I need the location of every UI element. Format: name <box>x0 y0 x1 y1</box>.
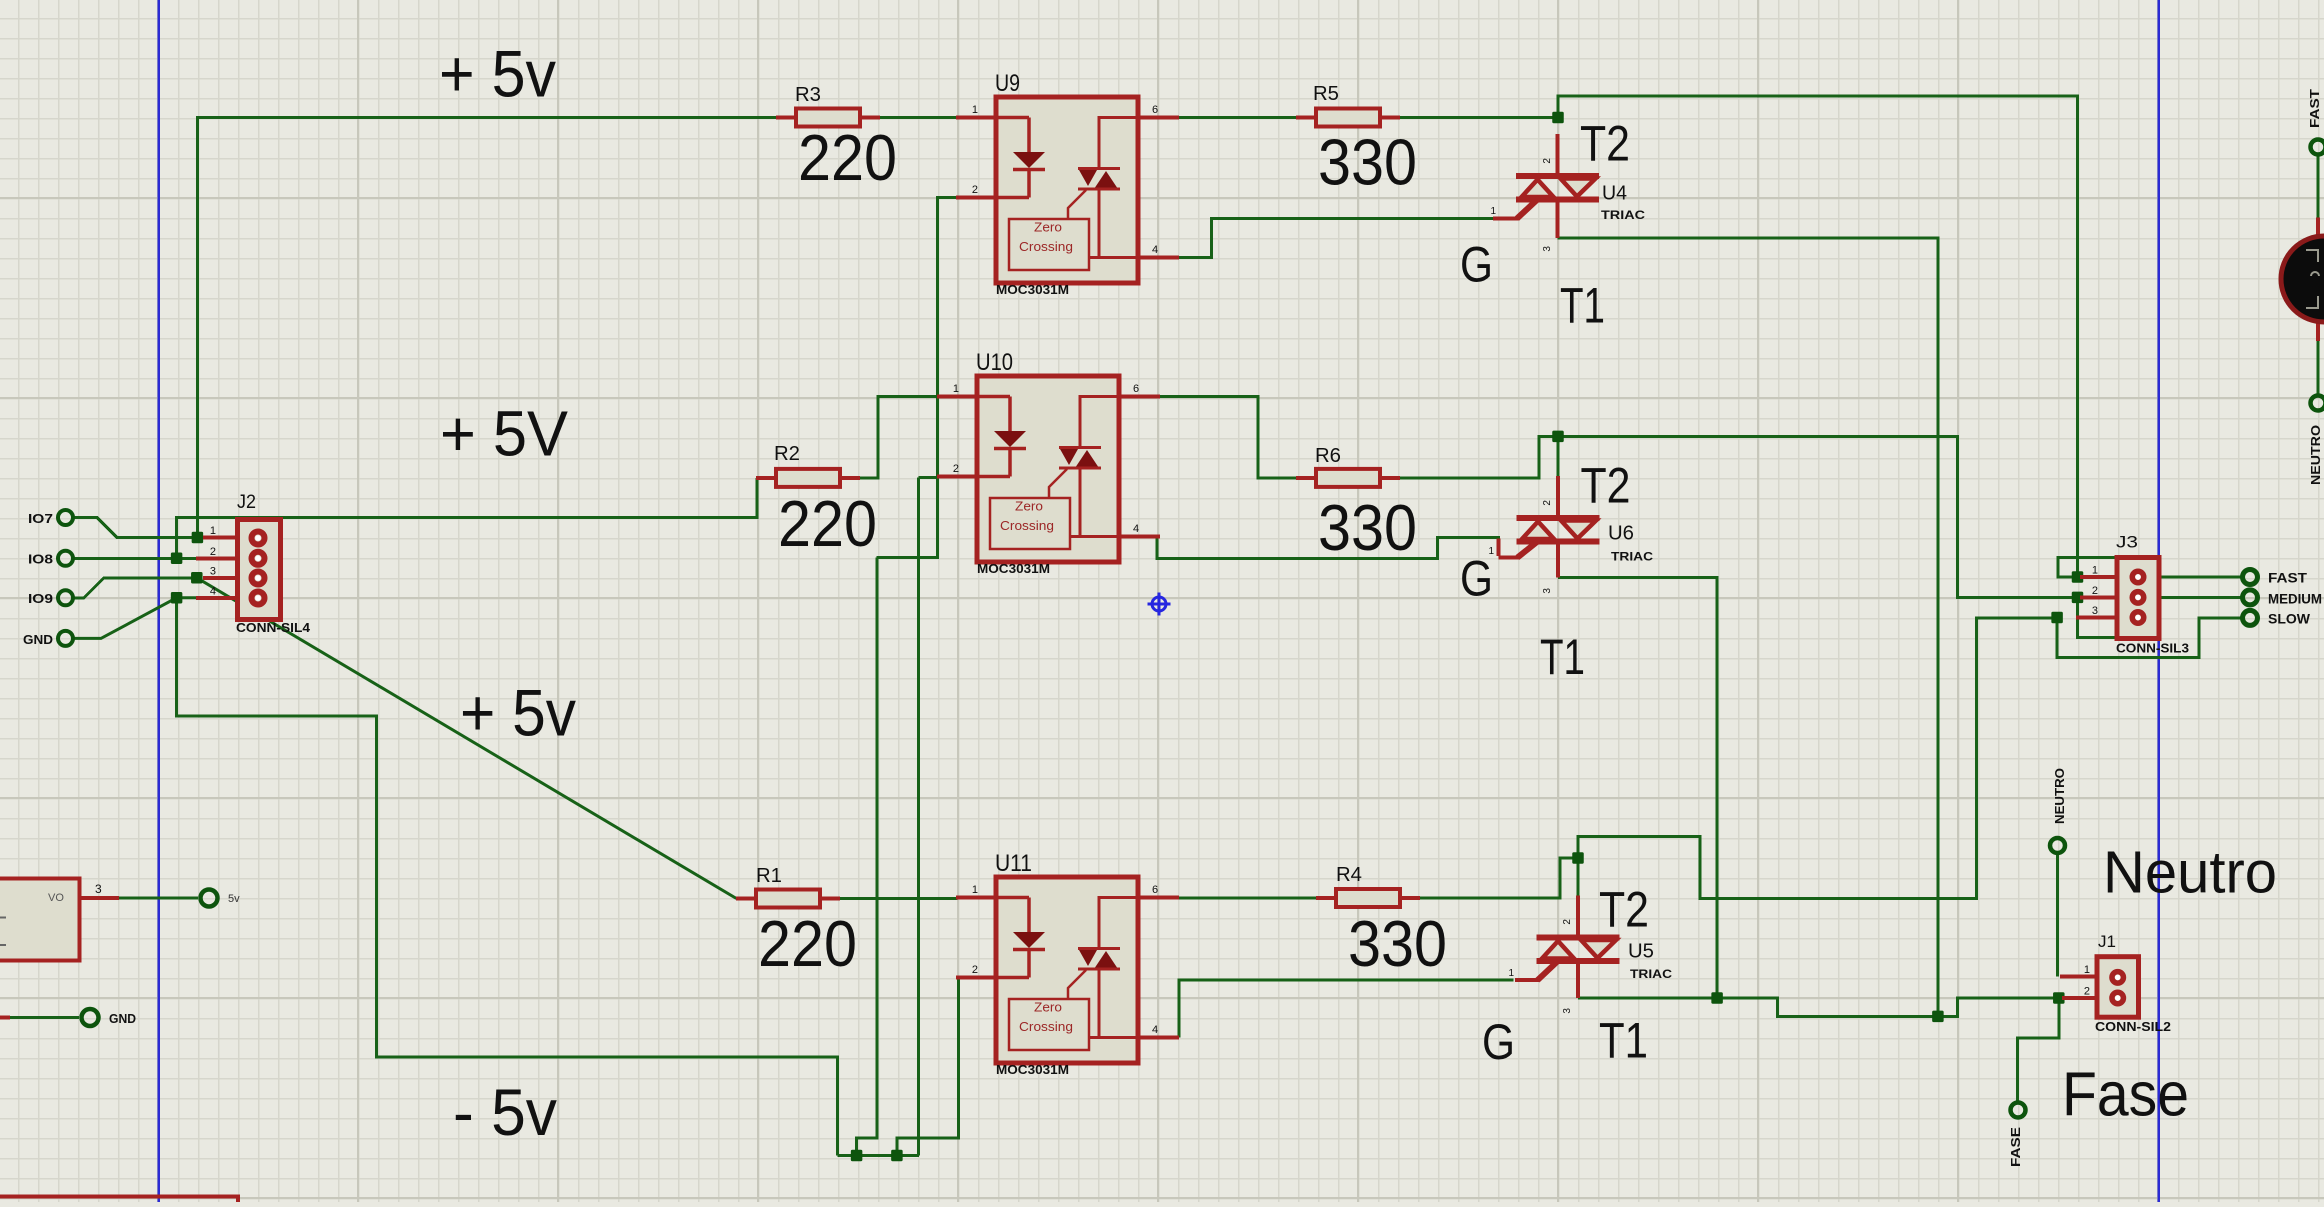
wire J2 pin3 diagonal to R1 <box>197 578 737 899</box>
svg-text:J3: J3 <box>2116 533 2138 552</box>
wire U11 pin 6 to R4 <box>1179 897 1316 900</box>
resistor R4 <box>1316 864 1447 980</box>
wire J3 pin1 loop <box>2058 557 2117 577</box>
svg-text:4: 4 <box>1152 1024 1158 1036</box>
svg-text:1: 1 <box>953 383 959 395</box>
svg-text:2: 2 <box>1562 919 1573 925</box>
svg-text:1: 1 <box>1488 546 1494 557</box>
svg-text:G: G <box>1482 1014 1515 1070</box>
triac U4 T2 red lead <box>1556 134 1560 176</box>
junction J3 pin2 <box>2072 592 2084 604</box>
wire U10 pin2 jog <box>918 476 936 479</box>
junction J2 pin4 <box>171 592 183 604</box>
terminal IO7 <box>58 510 73 525</box>
regulator V0 box <box>0 879 119 961</box>
terminal NEUTRO (J1) <box>2050 838 2065 853</box>
svg-text:- 5v: - 5v <box>453 1075 557 1149</box>
svg-text:U6: U6 <box>1608 523 1634 545</box>
svg-text:U9: U9 <box>995 70 1020 97</box>
wire U10 pin 6 down to R6 <box>1159 397 1296 478</box>
junction U5/U6 T1 <box>1711 992 1723 1004</box>
motor/lamp at right edge <box>2281 218 2324 342</box>
svg-text:Zero: Zero <box>1034 1001 1062 1015</box>
wire R5 to T2 junction of U4 <box>1400 116 1558 119</box>
svg-text:2: 2 <box>210 546 216 558</box>
terminal FAST <box>2243 570 2258 585</box>
svg-text:GND: GND <box>109 1011 136 1026</box>
origin marker (blue crosshair) <box>1148 593 1171 616</box>
svg-text:T2: T2 <box>1580 116 1630 172</box>
terminal FAST (motor top) <box>2311 140 2324 155</box>
wire FAST terminal to motor <box>2317 155 2320 218</box>
wire U5 T1 to J1 pin 2 <box>1578 998 2059 1016</box>
svg-text:R4: R4 <box>1336 864 1362 886</box>
junction J3 pin3 <box>2051 612 2063 624</box>
wire cathode riser left to bus <box>857 558 877 1156</box>
terminal 5v (V0 output) <box>201 890 218 907</box>
sheet border right <box>2157 0 2160 1202</box>
wire U5 T2 junction bypass to J3 pin 3 (SLOW) <box>1578 618 2057 899</box>
svg-text:330: 330 <box>1318 126 1417 199</box>
svg-text:U11: U11 <box>995 850 1032 877</box>
resistor R2 <box>756 443 877 560</box>
svg-text:CONN-SIL3: CONN-SIL3 <box>2116 642 2189 656</box>
svg-text:330: 330 <box>1348 907 1447 980</box>
svg-text:3: 3 <box>1542 588 1553 594</box>
wire U11 pin 4 to U5 gate <box>1179 980 1514 1037</box>
svg-text:T1: T1 <box>1540 629 1585 685</box>
svg-text:2: 2 <box>953 463 959 475</box>
wire R3 to U9 pin 1 <box>860 116 956 119</box>
wire R1 to U11 pin 1 <box>840 897 957 900</box>
svg-text:330: 330 <box>1318 491 1417 564</box>
svg-text:1: 1 <box>2092 565 2098 577</box>
wire to GND terminal <box>10 1016 79 1019</box>
svg-text:2: 2 <box>972 184 978 196</box>
connector J1 CONN-SIL2 <box>2060 957 2139 1018</box>
svg-text:U4: U4 <box>1602 183 1627 205</box>
svg-text:4: 4 <box>210 585 216 597</box>
junction J3 pin1 <box>2072 571 2084 583</box>
junction U5 T2 <box>1572 852 1584 864</box>
terminal GND (J2 side) <box>58 631 73 646</box>
svg-text:1: 1 <box>972 884 978 896</box>
svg-text:220: 220 <box>798 121 897 194</box>
triac U5 <box>1515 938 1620 999</box>
svg-text:Zero: Zero <box>1015 500 1043 514</box>
wire J1 pin 2 to FASE terminal <box>2018 998 2059 1102</box>
svg-text:+ 5V: + 5V <box>440 398 568 470</box>
svg-text:3: 3 <box>1542 246 1553 252</box>
svg-text:FAST: FAST <box>2307 89 2322 128</box>
svg-text:220: 220 <box>758 907 857 980</box>
svg-text:MOC3031M: MOC3031M <box>996 1063 1069 1077</box>
svg-text:3: 3 <box>1562 1008 1573 1014</box>
svg-text:6: 6 <box>1133 383 1139 395</box>
sheet border left <box>157 0 160 1202</box>
wire J3 to FAST terminal <box>2160 576 2241 579</box>
svg-text:2: 2 <box>1542 500 1553 506</box>
svg-text:R6: R6 <box>1315 445 1341 467</box>
wire -5v net: J2 pin4 down to bottom bus <box>177 598 838 1156</box>
svg-text:Crossing: Crossing <box>1019 240 1073 254</box>
wire U5 T2 junction down <box>1577 857 1580 896</box>
svg-text:2: 2 <box>972 964 978 976</box>
svg-text:Zero: Zero <box>1034 221 1062 235</box>
triac U6 <box>1499 518 1600 577</box>
svg-text:3: 3 <box>95 882 102 896</box>
connector J2 CONN-SIL4 <box>196 520 281 620</box>
svg-text:6: 6 <box>1152 884 1158 896</box>
svg-text:R5: R5 <box>1313 83 1339 105</box>
svg-text:+ 5v: + 5v <box>460 676 576 750</box>
svg-text:2: 2 <box>2084 986 2090 998</box>
wire U9 pin 2 down to U10 pin 2 <box>937 198 956 558</box>
svg-text:5v: 5v <box>228 893 240 905</box>
svg-text:2: 2 <box>2092 585 2098 597</box>
wire bottom bus <box>838 1154 920 1157</box>
svg-text:1: 1 <box>2084 964 2090 976</box>
wire R2 to U10 pin 1 <box>860 397 957 478</box>
svg-text:GND: GND <box>23 632 53 647</box>
svg-text:CONN-SIL2: CONN-SIL2 <box>2095 1020 2171 1034</box>
resistor R5 <box>1296 83 1417 199</box>
svg-text:G: G <box>1460 237 1493 293</box>
wire cathode bus riser right <box>917 478 920 1156</box>
wire U10 pin 4 to U6 gate <box>1157 537 1499 559</box>
terminal FASE <box>2011 1103 2026 1118</box>
svg-text:FAST: FAST <box>2268 571 2308 586</box>
optocoupler U10 MOC3031M <box>937 349 1160 576</box>
resistor R3 <box>776 84 897 194</box>
wire IO8 terminal to J2 pin 2 junction <box>74 557 196 560</box>
triac U6 gate red jog <box>1497 539 1501 557</box>
wire R6 up to U6 T2 junction <box>1400 436 1558 478</box>
svg-text:Neutro: Neutro <box>2103 840 2277 906</box>
svg-text:CONN-SIL4: CONN-SIL4 <box>236 621 310 635</box>
wire U6 T2 junction down <box>1557 435 1560 476</box>
svg-text:IO9: IO9 <box>28 591 53 606</box>
resistor R6 <box>1296 445 1417 564</box>
connector J3 CONN-SIL3 <box>2076 558 2159 639</box>
svg-text:SLOW: SLOW <box>2268 612 2310 627</box>
svg-text:VO: VO <box>48 892 64 904</box>
svg-text:Crossing: Crossing <box>1019 1020 1073 1034</box>
terminal MEDIUM <box>2243 590 2258 605</box>
svg-text:MEDIUM: MEDIUM <box>2268 592 2322 607</box>
wire +5v net: J2 pin1 up to top rail <box>197 118 776 540</box>
svg-text:Fase: Fase <box>2062 1061 2189 1130</box>
svg-text:MOC3031M: MOC3031M <box>977 562 1050 576</box>
svg-text:6: 6 <box>1152 104 1158 116</box>
resistor R1 <box>736 865 857 980</box>
svg-text:T1: T1 <box>1560 278 1605 334</box>
svg-text:3: 3 <box>2092 605 2098 617</box>
svg-text:1: 1 <box>972 104 978 116</box>
junction J2 pin2 <box>171 553 183 565</box>
triac U5 T2 red lead <box>1576 896 1580 938</box>
svg-text:T2: T2 <box>1581 458 1631 514</box>
junction bus right <box>891 1150 903 1162</box>
wire J3 pin2 loop <box>2078 597 2118 637</box>
red pin stub at GND wire left edge <box>0 1016 10 1020</box>
wire V0 output to 5v terminal <box>119 897 198 900</box>
terminal IO9 <box>58 590 73 605</box>
terminal SLOW <box>2243 610 2258 625</box>
wire GND terminal diagonal to J2 pin 4 junction <box>74 598 196 639</box>
wire IO9 terminal to J2 pin 3 junction <box>74 578 197 598</box>
svg-text:1: 1 <box>1490 206 1496 217</box>
wire U6 T2 junction to J3 pin 2 <box>1558 436 2076 597</box>
wire U6 T1 down to J1 node <box>1558 577 1717 998</box>
svg-text:IO7: IO7 <box>28 511 53 526</box>
svg-text:NEUTRO: NEUTRO <box>2052 768 2067 824</box>
wire J3 pin3 to SLOW terminal <box>2057 618 2241 658</box>
svg-text:1: 1 <box>210 525 216 537</box>
terminal NEUTRO (motor bottom) <box>2311 396 2324 411</box>
wire cathode link horizontal <box>877 556 939 559</box>
optocoupler U11 MOC3031M <box>956 850 1179 1077</box>
svg-text:3: 3 <box>210 565 216 577</box>
junction U6 T2 <box>1552 431 1564 443</box>
svg-text:R3: R3 <box>795 84 821 106</box>
svg-text:R1: R1 <box>756 865 782 887</box>
svg-text:FASE: FASE <box>2008 1127 2023 1167</box>
junction J1 pin2 <box>2053 992 2065 1004</box>
svg-text:4: 4 <box>1152 244 1158 256</box>
svg-text:220: 220 <box>778 487 877 560</box>
svg-text:T1: T1 <box>1599 1013 1648 1069</box>
svg-text:IO8: IO8 <box>28 552 53 567</box>
terminal IO8 <box>58 551 73 566</box>
svg-text:U10: U10 <box>976 349 1013 376</box>
wire U9 pin 6 to R5 <box>1179 116 1296 119</box>
wire U4 T2 junction up to top-right rail, down to J3 pin 1 <box>1558 96 2078 577</box>
junction U4 T2 <box>1552 112 1564 124</box>
wire R4 to U5 T2 junction <box>1420 858 1578 898</box>
svg-text:TRIAC: TRIAC <box>1601 208 1645 222</box>
svg-text:J2: J2 <box>237 492 256 513</box>
svg-text:TRIAC: TRIAC <box>1630 967 1672 981</box>
wire motor to NEUTRO terminal <box>2317 341 2320 395</box>
svg-text:R2: R2 <box>774 443 800 465</box>
svg-text:U5: U5 <box>1628 941 1654 963</box>
wire U9 pin 4 to U4 gate <box>1179 219 1493 258</box>
svg-text:Crossing: Crossing <box>1000 519 1054 533</box>
svg-text:J1: J1 <box>2098 932 2116 951</box>
triac U4 <box>1493 176 1599 238</box>
wire U11 pin2 to bottom bus <box>897 980 958 1156</box>
svg-text:T2: T2 <box>1599 882 1649 938</box>
optocoupler U9 MOC3031M <box>956 70 1179 297</box>
triac U6 T2 red lead <box>1556 476 1560 518</box>
svg-text:MOC3031M: MOC3031M <box>996 283 1069 297</box>
terminal GND (bottom) <box>82 1009 99 1026</box>
wire NEUTRO terminal to J1 pin 1 <box>2056 854 2059 977</box>
junction bus left <box>851 1150 863 1162</box>
svg-text:1: 1 <box>1508 968 1514 979</box>
junction U4 T1 bottom <box>1932 1011 1944 1023</box>
bottom-left partial component box <box>0 1197 238 1203</box>
junction J2 pin1 <box>192 532 204 544</box>
svg-text:+ 5v: + 5v <box>439 37 556 111</box>
wire U4 T1 to J1 branch vertical <box>1558 238 1938 1016</box>
svg-text:TRIAC: TRIAC <box>1611 550 1653 564</box>
wire IO7 terminal to J2 pin 1 junction <box>74 518 197 538</box>
junction J2 pin3 <box>191 572 203 584</box>
wire J3 to MEDIUM terminal <box>2160 596 2241 599</box>
wire J2 pin2 junction up and right to R2 <box>177 478 757 560</box>
svg-text:NEUTRO: NEUTRO <box>2308 425 2323 485</box>
svg-text:4: 4 <box>1133 523 1139 535</box>
svg-text:2: 2 <box>1542 158 1553 164</box>
svg-text:G: G <box>1460 551 1493 607</box>
